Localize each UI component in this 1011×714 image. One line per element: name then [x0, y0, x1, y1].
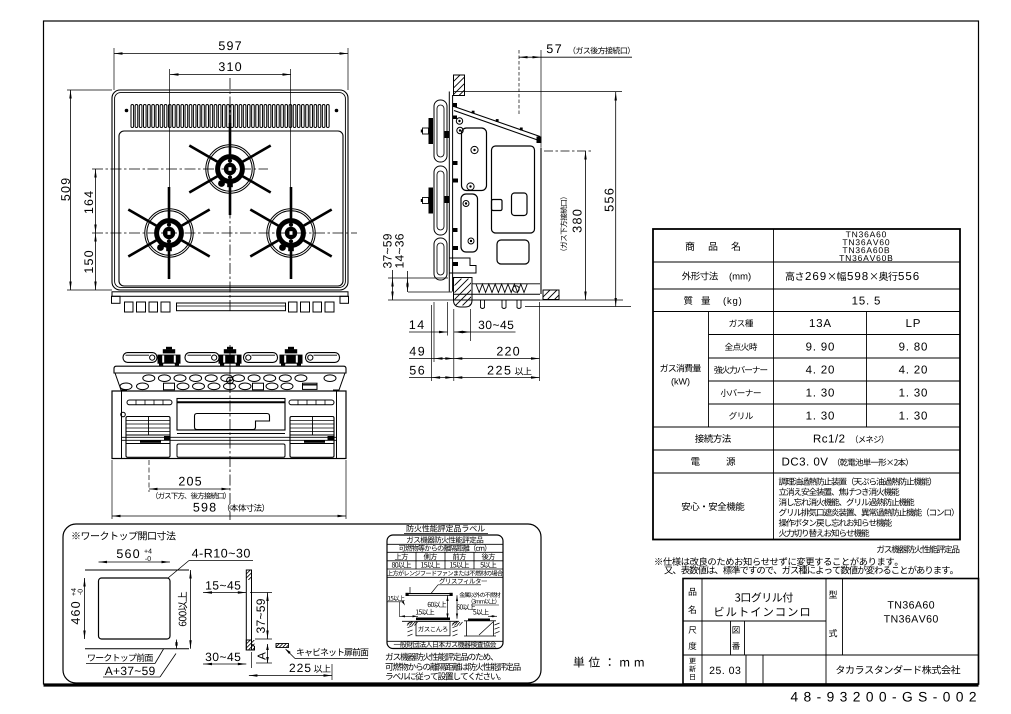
front grill window [195, 414, 270, 430]
spec row グリル [729, 412, 753, 420]
plan glass top outline [112, 90, 348, 290]
front burner cap x=291 [285, 349, 297, 353]
dimension 225以上 section [290, 664, 311, 672]
spec table row lines [653, 261, 960, 263]
fire label dim 60以上 right [457, 604, 476, 610]
title block 更新日 [689, 658, 696, 664]
label cabinet door front face [297, 648, 369, 656]
fire label row2 [399, 545, 486, 552]
front burner cap x=230 [224, 349, 236, 353]
fire label caution note under label [386, 653, 493, 661]
side bottom extension lines [431, 305, 433, 381]
plan bottom flange strip [112, 292, 348, 297]
dimension 225以上 [488, 366, 511, 375]
fire label header row [395, 553, 408, 560]
title block company name [836, 665, 960, 674]
dimension 560 +4-0 [117, 549, 139, 558]
side front flange [454, 293, 541, 295]
front body trim lines [122, 436, 337, 438]
dimension 57 gas rear connection [547, 44, 561, 53]
worktop front edge line [85, 648, 189, 650]
fire label outer box [387, 535, 503, 649]
title block 尺度 [689, 626, 697, 633]
front center screw [227, 377, 234, 384]
dimension 4-R10~30 [192, 549, 250, 558]
title block 図番 [732, 626, 739, 633]
fire label org row [387, 640, 503, 642]
fire label diagram [439, 578, 486, 584]
dimension 37~59 side [383, 234, 391, 268]
side grill window [512, 193, 528, 216]
side bottom reference line 556 [525, 306, 631, 308]
side front bracket [449, 258, 476, 273]
dimension 14 [410, 320, 424, 329]
title block 品名 [689, 588, 697, 596]
front glass slab [114, 366, 346, 373]
front body outline [112, 391, 346, 459]
plan flange right tab [340, 296, 349, 303]
plan horizontal centerline rear burner [92, 168, 268, 170]
plan horizontal centerline front burners [92, 232, 357, 234]
front louver strip right [289, 400, 334, 405]
front grill door [177, 399, 285, 431]
front burner cap x=169 [163, 349, 175, 353]
spec table outer border [653, 229, 960, 540]
side slant cover end cap [537, 137, 542, 144]
dimension 56 [410, 366, 424, 375]
label gas bottom rear connection [156, 492, 226, 499]
fire label cooktop (gas konro) [416, 618, 450, 621]
front trivet hook 3 [244, 353, 278, 363]
title block 型式 [829, 590, 837, 598]
dimension 15~45 [206, 581, 240, 589]
side worktop rear cross-section hatched [454, 75, 465, 96]
dimension 30~45 side bottom [479, 321, 514, 329]
worktop section bar [246, 570, 251, 650]
dimension 220 [497, 347, 519, 356]
side front hooks [481, 300, 485, 309]
dimension 164 [84, 191, 93, 213]
front right vent grille [303, 383, 318, 389]
title block [683, 579, 979, 685]
dimension 556 [605, 189, 614, 212]
side body front line [388, 299, 623, 301]
fire label dim 60以上 left [428, 601, 447, 607]
fire performance label title [407, 525, 485, 533]
spec row 全点火時 [725, 343, 757, 351]
dimension 380 gas bottom connection [573, 210, 582, 233]
spec row 電源 [691, 457, 735, 466]
plan inner panel outline [119, 131, 343, 286]
burner front left (plan) [128, 187, 209, 279]
front left drawer panel [126, 417, 170, 458]
side burner box sawtooth bottom [472, 283, 540, 285]
side inner bracket lower [461, 194, 478, 252]
fire label dim 15以上 second [416, 609, 434, 615]
fire label table right [468, 619, 490, 621]
spec row 安心・安全機能 [682, 502, 745, 511]
front vent holes [143, 375, 155, 382]
dimension 598 body width [193, 503, 215, 512]
dimension A section [258, 652, 266, 660]
plan bottom tray [177, 303, 286, 311]
side screws [456, 118, 462, 124]
side worktop front cross-section hatched [454, 278, 473, 308]
spec row ガス種 [729, 319, 753, 327]
dimension 30~45 section [206, 653, 241, 661]
plan vent slots [131, 105, 329, 128]
front louver strip left [127, 400, 172, 405]
fire label floor hatch columns [408, 622, 413, 624]
spec group ガス消費量 [660, 364, 701, 372]
worktop top edge line [85, 569, 189, 571]
worktop opening rectangle [99, 578, 171, 639]
side small hardware bits [453, 103, 457, 107]
spec row 強火力バーナー [714, 366, 767, 374]
dimension 460 +4-0 [71, 602, 80, 624]
plan screw right [335, 109, 339, 113]
unit note 単位:mm [574, 657, 644, 668]
dimension 509 [61, 178, 70, 200]
cabinet door cross-section hatched [276, 644, 289, 648]
front ignition button [121, 412, 126, 417]
fire label note 金属以外の不燃材 [459, 592, 500, 597]
extension lines row1 [447, 302, 449, 336]
side counter right hatched [543, 290, 559, 300]
front bottom center drawer [177, 444, 285, 457]
fire label dim 5以上 [473, 609, 489, 615]
side rear slant cover [454, 107, 540, 137]
fire label row1 [407, 536, 483, 543]
fire label note row [387, 570, 503, 576]
dimension 205 [148, 460, 150, 492]
note 仕様変更 disclaimer [655, 557, 897, 566]
spec row 質量 [684, 296, 710, 305]
side rear extension line 556 top [454, 91, 622, 93]
side trivet front reference line [388, 277, 448, 279]
side burner profiles [434, 100, 447, 162]
side inner bracket upper [462, 128, 487, 191]
plan flange left tab [112, 296, 121, 303]
burner rear center (plan) [189, 123, 270, 215]
side body bottom edge line [540, 148, 542, 295]
front door bottom lines [177, 433, 285, 435]
plan screw left [125, 109, 129, 113]
drawing number 48-93200-GS-002 [791, 692, 976, 702]
dimension 597 [219, 41, 241, 50]
side grill box [492, 146, 535, 233]
spec table column lines [773, 229, 775, 540]
label worktop front face [88, 653, 153, 661]
fire label value row [392, 562, 411, 569]
front right drawer panel [290, 417, 334, 458]
worktop opening detail box [63, 524, 541, 683]
plan feet [125, 302, 134, 312]
burner front right (plan) [250, 187, 331, 279]
side glass front reference line [408, 291, 452, 293]
dimension 150 [84, 251, 93, 273]
dimension 37~59 section [256, 599, 264, 633]
spec row 商品名 [686, 242, 740, 251]
side grill small latch [492, 200, 503, 211]
front view vertical centerline [229, 345, 231, 520]
spec row 小バーナー [721, 389, 761, 397]
side glass top edge double line [448, 92, 450, 292]
side lower box [497, 240, 529, 264]
note ガス機器防火性能評定品 below table [877, 545, 959, 553]
fire label dim 15以上 left [388, 595, 405, 601]
front vent squares [164, 383, 175, 390]
dimension 14~36 side [395, 234, 403, 267]
plan vertical centerline [229, 78, 231, 312]
dimension 310 [219, 62, 241, 71]
dimension 600以上 [178, 592, 187, 626]
worktop box title [72, 531, 175, 540]
front trivet hook 1 [123, 353, 157, 363]
dimension 49 [410, 347, 425, 356]
front trivet hook 2 [185, 353, 219, 363]
spec row 接続方法 [695, 434, 731, 443]
front vent band braces [115, 373, 127, 390]
front trivet hook 4 [306, 353, 340, 363]
spec row 外形寸法 [682, 272, 718, 281]
dimension A+37~59 [105, 667, 155, 675]
